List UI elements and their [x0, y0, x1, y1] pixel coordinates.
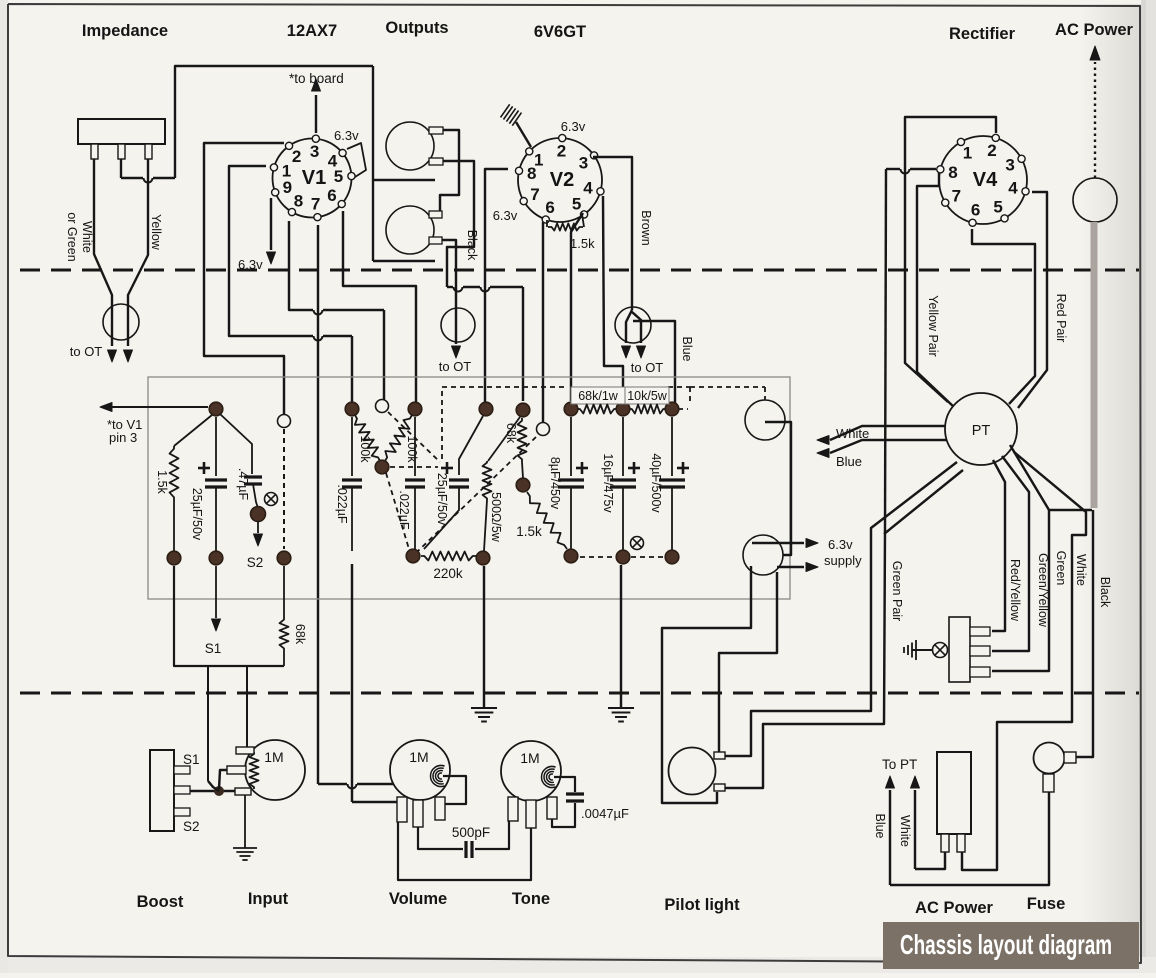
svg-text:.47µF: .47µF	[236, 468, 250, 501]
svg-text:Fuse: Fuse	[1027, 895, 1066, 913]
svg-text:Volume: Volume	[389, 890, 447, 908]
svg-text:AC Power: AC Power	[915, 899, 994, 917]
svg-text:*to board: *to board	[289, 71, 344, 86]
svg-text:Brown: Brown	[639, 210, 653, 245]
svg-text:220k: 220k	[433, 566, 463, 581]
svg-text:2: 2	[557, 142, 566, 161]
svg-text:to OT: to OT	[439, 359, 472, 374]
svg-text:1.5k: 1.5k	[155, 470, 169, 494]
svg-text:500pF: 500pF	[452, 825, 490, 840]
svg-text:.022µF: .022µF	[335, 484, 349, 524]
svg-text:4: 4	[1008, 178, 1018, 197]
svg-text:4: 4	[583, 178, 593, 197]
svg-text:S1: S1	[205, 641, 222, 656]
svg-text:Chassis layout diagram: Chassis layout diagram	[900, 929, 1112, 960]
svg-text:White: White	[80, 221, 94, 253]
svg-text:to OT: to OT	[631, 360, 664, 375]
svg-text:or Green: or Green	[65, 212, 79, 261]
svg-text:Black: Black	[1098, 577, 1112, 608]
svg-text:1M: 1M	[264, 749, 283, 765]
svg-text:3: 3	[310, 142, 319, 161]
svg-text:S2: S2	[183, 819, 200, 834]
svg-text:12AX7: 12AX7	[287, 22, 337, 40]
svg-text:7: 7	[530, 185, 539, 204]
svg-text:PT: PT	[972, 423, 991, 439]
svg-text:Blue: Blue	[680, 336, 694, 361]
svg-text:16µF/475v: 16µF/475v	[601, 453, 615, 513]
svg-text:Blue: Blue	[836, 454, 862, 469]
svg-text:V4: V4	[973, 169, 998, 191]
svg-text:6V6GT: 6V6GT	[534, 23, 586, 41]
svg-text:Yellow: Yellow	[149, 214, 163, 251]
svg-text:pin 3: pin 3	[109, 430, 137, 445]
svg-text:1.5k: 1.5k	[570, 236, 595, 251]
svg-text:S1: S1	[183, 752, 200, 767]
svg-text:500Ω/5w: 500Ω/5w	[489, 492, 503, 543]
svg-text:To PT: To PT	[882, 757, 917, 772]
svg-text:2: 2	[987, 141, 996, 160]
svg-text:5: 5	[572, 194, 581, 213]
svg-text:Pilot light: Pilot light	[664, 896, 740, 914]
svg-text:Green/Yellow: Green/Yellow	[1036, 553, 1050, 628]
svg-text:Blue: Blue	[873, 813, 887, 838]
svg-text:7: 7	[311, 195, 320, 214]
svg-text:100k: 100k	[358, 435, 372, 463]
svg-text:Red Pair: Red Pair	[1054, 294, 1068, 343]
svg-text:to OT: to OT	[70, 344, 103, 359]
svg-text:.022µF: .022µF	[397, 490, 411, 530]
svg-text:Red/Yellow: Red/Yellow	[1008, 559, 1022, 622]
svg-text:6.3v: 6.3v	[334, 128, 359, 143]
svg-text:8µF/450v: 8µF/450v	[548, 457, 562, 510]
svg-text:Outputs: Outputs	[385, 19, 448, 37]
svg-text:1: 1	[963, 144, 972, 163]
svg-text:Input: Input	[248, 890, 289, 908]
svg-text:Green: Green	[1054, 551, 1068, 586]
svg-text:Impedance: Impedance	[82, 22, 168, 40]
svg-text:Rectifier: Rectifier	[949, 25, 1016, 43]
svg-text:9: 9	[283, 178, 292, 197]
svg-text:5: 5	[334, 167, 343, 186]
svg-text:White: White	[898, 815, 912, 847]
svg-text:68k/1w: 68k/1w	[578, 389, 619, 403]
svg-text:10k/5w: 10k/5w	[627, 389, 668, 403]
svg-text:6.3v: 6.3v	[238, 257, 263, 272]
svg-text:Green Pair: Green Pair	[890, 561, 904, 621]
svg-text:6.3v: 6.3v	[493, 208, 518, 223]
svg-text:6: 6	[545, 198, 554, 217]
svg-text:1M: 1M	[409, 749, 428, 765]
svg-text:.0047µF: .0047µF	[581, 806, 629, 821]
svg-text:supply: supply	[824, 553, 862, 568]
svg-text:3: 3	[579, 153, 588, 172]
svg-text:8: 8	[527, 164, 536, 183]
svg-text:25µF/50v: 25µF/50v	[190, 488, 204, 541]
svg-text:40µF/500v: 40µF/500v	[649, 453, 663, 513]
svg-text:6.3v: 6.3v	[561, 119, 586, 134]
svg-text:Tone: Tone	[512, 890, 550, 908]
svg-text:5: 5	[993, 198, 1002, 217]
svg-text:25µF/50v: 25µF/50v	[435, 473, 449, 526]
svg-text:1.5k: 1.5k	[516, 524, 542, 539]
svg-text:8: 8	[294, 191, 303, 210]
svg-text:8: 8	[948, 163, 957, 182]
svg-text:S2: S2	[247, 555, 264, 570]
svg-text:V2: V2	[550, 169, 574, 191]
svg-text:1M: 1M	[520, 750, 539, 766]
svg-text:7: 7	[952, 186, 961, 205]
svg-text:6: 6	[327, 186, 336, 205]
svg-text:68k: 68k	[504, 423, 518, 444]
svg-text:Yellow Pair: Yellow Pair	[926, 295, 940, 356]
svg-text:AC Power: AC Power	[1055, 21, 1134, 39]
svg-text:3: 3	[1005, 156, 1014, 175]
svg-text:V1: V1	[302, 167, 326, 189]
svg-text:2: 2	[292, 147, 301, 166]
svg-text:68k: 68k	[293, 624, 307, 645]
svg-text:6: 6	[971, 201, 980, 220]
svg-text:6.3v: 6.3v	[828, 537, 853, 552]
svg-text:Black: Black	[465, 230, 479, 261]
svg-text:Boost: Boost	[137, 893, 184, 911]
svg-text:White: White	[1074, 554, 1088, 586]
svg-text:White: White	[836, 426, 869, 441]
